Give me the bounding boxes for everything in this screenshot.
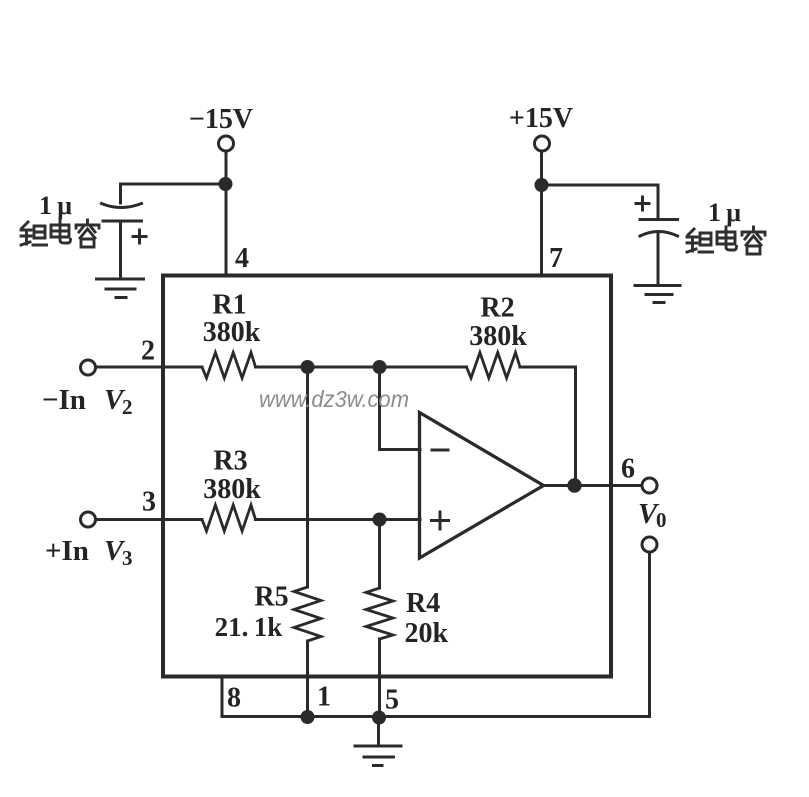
svg-text:2: 2 xyxy=(122,395,133,419)
label tantalum-cap left (drawn CJK strokes) xyxy=(21,220,99,247)
svg-text:2: 2 xyxy=(141,336,155,367)
terminal V0 upper xyxy=(642,478,657,493)
IC box U1 xyxy=(163,276,611,677)
resistor R5 zigzag xyxy=(294,587,321,641)
wire ground stem xyxy=(377,717,380,746)
junction dot pin1 bus xyxy=(301,710,315,724)
wire pin3 to R3 xyxy=(96,518,203,521)
svg-text:20k: 20k xyxy=(405,618,449,649)
svg-text:1: 1 xyxy=(317,682,331,713)
wire pin8 stub xyxy=(221,677,224,717)
svg-text:R4: R4 xyxy=(406,588,440,619)
svg-text:4: 4 xyxy=(235,243,249,274)
wire minus stub vertical xyxy=(378,367,381,450)
capacitor C2 curved plate xyxy=(640,232,678,237)
junction dot at -15V rail xyxy=(219,177,233,191)
resistor R1 zigzag xyxy=(202,353,256,379)
wire R1 to R2 (inverting node) xyxy=(256,366,467,369)
wire to left capacitor xyxy=(121,183,227,186)
resistor R4 zigzag xyxy=(366,588,393,639)
svg-text:R2: R2 xyxy=(480,293,514,324)
wire pin2 to R1 xyxy=(96,366,203,369)
wire minus stub horizontal xyxy=(380,448,421,451)
ground right capacitor xyxy=(635,286,680,303)
capacitor C1 stem bottom xyxy=(119,223,122,280)
op-amp plus symbol xyxy=(432,512,449,529)
svg-text:5: 5 xyxy=(385,685,399,716)
terminal V0 lower xyxy=(642,537,657,552)
svg-text:7: 7 xyxy=(549,243,563,274)
resistor R2 zigzag xyxy=(467,353,521,379)
resistor R3 zigzag xyxy=(202,505,256,531)
svg-text:21. 1k: 21. 1k xyxy=(215,612,283,642)
capacitor C1 plus sign xyxy=(133,230,146,243)
svg-text:8: 8 xyxy=(227,683,241,714)
ground bottom xyxy=(355,746,401,766)
junction dot node A (R5 tap) xyxy=(301,360,315,374)
junction dot at +15V rail xyxy=(535,178,549,192)
wire R3 to plus input xyxy=(256,518,421,521)
junction dot node B (minus stub) xyxy=(373,360,387,374)
svg-text:380k: 380k xyxy=(469,321,527,352)
svg-text:0: 0 xyxy=(656,508,667,532)
capacitor C2 stem bottom xyxy=(657,233,660,286)
svg-text:+In: +In xyxy=(45,535,89,567)
svg-text:R5: R5 xyxy=(254,582,288,613)
svg-text:3: 3 xyxy=(142,487,156,518)
capacitor C2 straight plate xyxy=(640,218,678,221)
resistor R5 line bottom xyxy=(306,641,309,717)
wire output pin6 xyxy=(544,484,642,487)
terminal -15V xyxy=(219,136,234,151)
capacitor C2 plus sign xyxy=(636,197,649,210)
resistor R4 vertical line top xyxy=(378,520,381,589)
wire pin7 vertical xyxy=(540,152,543,277)
svg-text:−In: −In xyxy=(42,384,86,416)
capacitor C1 straight plate xyxy=(103,220,142,223)
wire pin4 vertical xyxy=(225,152,228,277)
terminal +15V xyxy=(535,136,550,151)
ground left capacitor xyxy=(97,279,144,298)
svg-text:380k: 380k xyxy=(203,474,261,505)
capacitor C1 left 1u stem top xyxy=(119,184,122,203)
wire bottom bus xyxy=(222,715,650,718)
op-amp minus symbol xyxy=(432,449,448,452)
svg-text:−15V: −15V xyxy=(189,104,253,135)
resistor R5 vertical line top xyxy=(306,367,309,587)
junction dot node C (R4 tap) xyxy=(373,513,387,527)
label tantalum-cap right (drawn CJK strokes) xyxy=(687,227,765,254)
svg-text:3: 3 xyxy=(122,546,133,570)
capacitor C2 right 1u stem top xyxy=(657,185,660,218)
capacitor C1 curved plate xyxy=(102,204,142,208)
terminal input 2 xyxy=(81,360,96,375)
svg-text:1 μ: 1 μ xyxy=(708,198,741,227)
junction dot pin5 bus xyxy=(372,711,386,725)
svg-text:1 μ: 1 μ xyxy=(39,191,72,220)
svg-text:+15V: +15V xyxy=(509,103,573,134)
wire feedback vertical xyxy=(574,367,577,486)
junction dot output node xyxy=(567,478,581,492)
resistor R4 line bottom xyxy=(378,639,381,717)
wire R2 to feedback corner xyxy=(520,366,576,369)
svg-text:www.dz3w.com: www.dz3w.com xyxy=(259,386,409,412)
svg-text:380k: 380k xyxy=(203,317,261,348)
wire V0 lower to bus xyxy=(648,552,651,717)
svg-text:R1: R1 xyxy=(212,290,246,321)
svg-text:6: 6 xyxy=(621,454,635,485)
terminal input 3 xyxy=(81,512,96,527)
wire to right capacitor xyxy=(542,184,659,187)
svg-text:R3: R3 xyxy=(213,446,247,477)
op-amp U1 triangle xyxy=(420,413,544,559)
